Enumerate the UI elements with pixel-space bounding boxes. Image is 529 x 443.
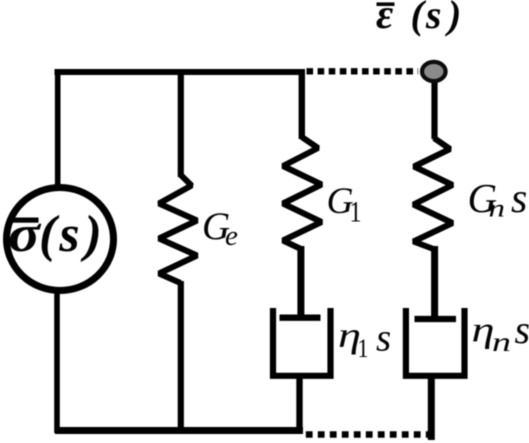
- svg-text:σ: σ: [8, 206, 42, 263]
- svg-text:e: e: [225, 220, 238, 252]
- svg-text:): ): [445, 0, 461, 37]
- svg-text:1: 1: [350, 196, 362, 229]
- svg-text:s: s: [511, 176, 527, 222]
- svg-text:(s: (s: [39, 206, 83, 263]
- svg-text:1: 1: [358, 334, 369, 363]
- svg-text:s: s: [515, 307, 529, 352]
- svg-text:): ): [81, 206, 102, 263]
- svg-text:(s: (s: [411, 0, 444, 37]
- svg-text:n: n: [489, 194, 506, 223]
- svg-text:s: s: [376, 317, 391, 360]
- svg-text:n: n: [492, 327, 511, 357]
